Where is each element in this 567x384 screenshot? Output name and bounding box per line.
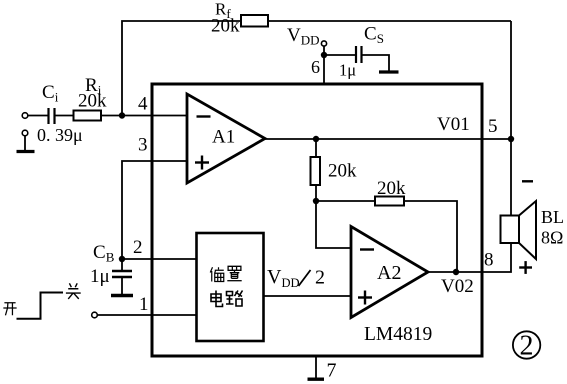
svg-text:1μ: 1μ xyxy=(339,61,356,80)
svg-text:4: 4 xyxy=(138,94,148,115)
ground CS xyxy=(379,70,399,73)
node V01 to speaker xyxy=(508,136,514,142)
node input junction xyxy=(119,112,125,118)
node V01 to 20k xyxy=(313,136,319,142)
svg-text:20k: 20k xyxy=(78,91,107,112)
wire pin 6 VDD into box xyxy=(323,46,325,84)
svg-text:2: 2 xyxy=(315,267,325,289)
op-amp A1 xyxy=(187,94,265,183)
wire VDD to CS xyxy=(324,54,356,56)
op-amp A2 xyxy=(351,227,428,318)
svg-text:6: 6 xyxy=(311,57,320,77)
text kai (开) xyxy=(3,303,16,316)
bias circuit box xyxy=(197,233,264,341)
switch control waveform xyxy=(17,293,64,319)
wire pin 1 to bias box xyxy=(97,314,196,316)
input terminal xyxy=(22,113,28,119)
text lu (路) xyxy=(226,291,243,307)
svg-text:V01: V01 xyxy=(437,114,470,135)
svg-text:2: 2 xyxy=(520,331,534,362)
speaker plus sign xyxy=(519,261,532,274)
text guan (关) xyxy=(66,283,81,299)
terminal VDD xyxy=(321,41,326,46)
wire Ri to A1 inverting input, pin 4 xyxy=(101,115,187,117)
svg-text:20k: 20k xyxy=(211,16,240,37)
wire input to Ci xyxy=(28,115,48,117)
wire top feedback from input node to right drop xyxy=(122,21,511,116)
svg-text:1: 1 xyxy=(139,294,149,315)
svg-text:A2: A2 xyxy=(377,262,401,284)
svg-text:0. 39μ: 0. 39μ xyxy=(37,125,83,145)
node CB junction xyxy=(119,256,125,262)
svg-text:20k: 20k xyxy=(328,161,357,182)
text pian (偏) xyxy=(210,267,224,281)
svg-text:1μ: 1μ xyxy=(90,266,110,287)
wire to A2 inverting input xyxy=(316,201,351,248)
IC box LM4819 xyxy=(152,84,482,356)
ground input terminal xyxy=(17,130,35,151)
svg-text:20k: 20k xyxy=(377,178,406,199)
node feedback junction xyxy=(313,198,319,204)
capacitor Ci xyxy=(49,108,55,124)
node V02 xyxy=(453,269,459,275)
svg-text:3: 3 xyxy=(138,135,148,156)
capacitor CB xyxy=(112,259,132,294)
resistor 20k vertical xyxy=(311,139,321,201)
resistor Rf xyxy=(241,15,268,27)
wire Ci to Ri xyxy=(55,115,74,117)
svg-text:V02: V02 xyxy=(441,276,474,297)
resistor 20k horizontal xyxy=(375,197,404,206)
capacitor CS xyxy=(356,46,362,63)
speaker minus sign xyxy=(522,180,533,182)
node VDD junction xyxy=(321,52,327,58)
wire A1 noninverting input pin 3 down to CB node xyxy=(122,161,187,259)
circled number 2 xyxy=(513,331,540,362)
svg-text:5: 5 xyxy=(488,116,498,137)
wire CS to ground xyxy=(362,55,390,71)
svg-text:BL: BL xyxy=(541,207,564,227)
wire V02 output of A2 to speaker, pin 8 xyxy=(428,243,511,272)
label VDD/2 xyxy=(267,266,325,290)
text zhi (置) xyxy=(227,266,241,280)
resistor Ri xyxy=(74,111,102,121)
text dian (电) xyxy=(211,291,223,307)
wire pin 2 from CB node to bias box xyxy=(122,258,197,260)
wire bias output to A2 noninverting input xyxy=(264,295,352,297)
svg-text:2: 2 xyxy=(133,237,143,258)
wire feedback to V02 with 20k horizontal xyxy=(316,201,457,272)
svg-text:8Ω: 8Ω xyxy=(541,228,563,248)
wire V01 output of A1 xyxy=(265,138,511,140)
svg-text:LM4819: LM4819 xyxy=(364,324,432,345)
svg-text:A1: A1 xyxy=(212,127,235,148)
ground pin 7 xyxy=(308,357,325,380)
svg-text:7: 7 xyxy=(327,360,337,382)
speaker BL xyxy=(501,201,537,259)
svg-text:8: 8 xyxy=(484,250,494,271)
wire right drop to speaker xyxy=(510,21,512,215)
terminal pin 1 xyxy=(92,312,98,318)
ground CB xyxy=(111,294,133,297)
